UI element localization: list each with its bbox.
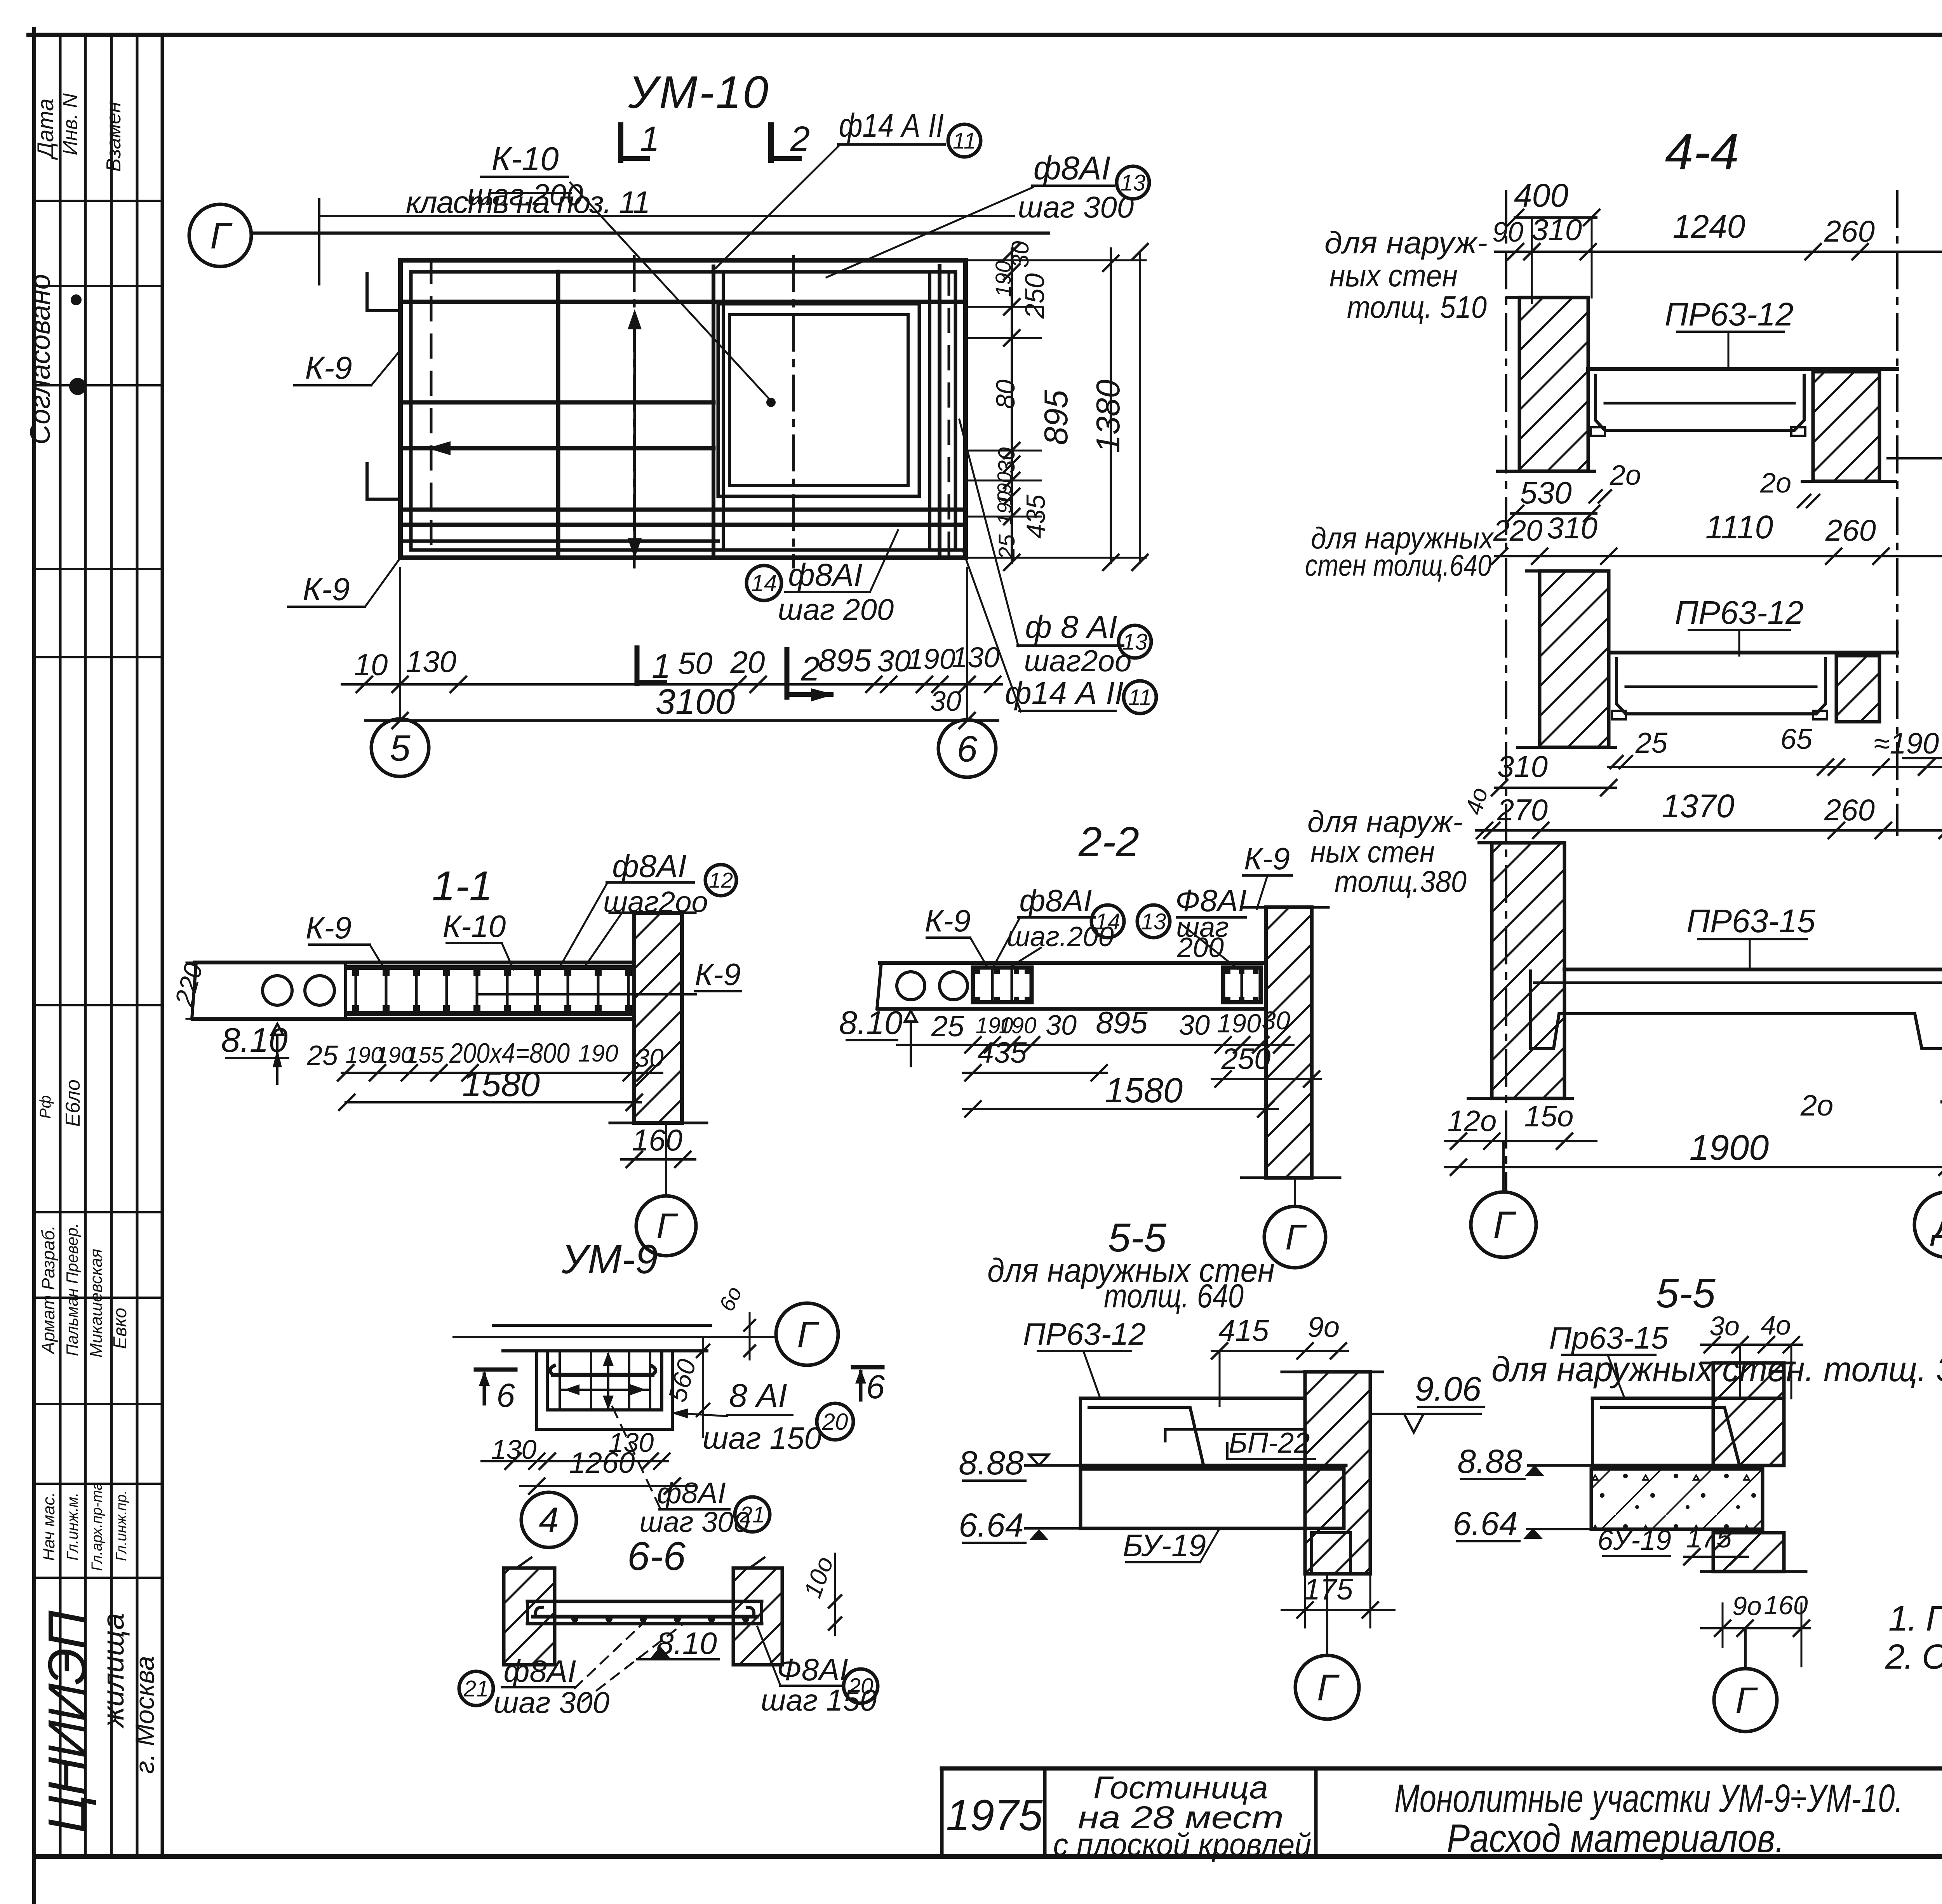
svg-text:4о: 4о bbox=[1761, 1310, 1791, 1340]
4-4 sub2 wall hatched bbox=[1540, 571, 1609, 747]
5-5/380 axis Г circle bbox=[1744, 1628, 1747, 1669]
6-6 slab bbox=[527, 1600, 762, 1603]
svg-text:Нач мас.: Нач мас. bbox=[39, 1492, 58, 1561]
2-2 hollow core circles bbox=[897, 972, 925, 1000]
svg-text:К-9: К-9 bbox=[306, 910, 352, 945]
svg-text:3100: 3100 bbox=[656, 682, 735, 722]
svg-text:895: 895 bbox=[818, 643, 872, 678]
4-4 sub2 panel bbox=[1609, 651, 1897, 654]
svg-text:190: 190 bbox=[999, 1013, 1037, 1038]
svg-text:ф8АI: ф8АI bbox=[1020, 883, 1092, 918]
4-4 right axis dash-dot upper bbox=[1896, 191, 1898, 835]
6-6 label ф8АI шаг 300 circle 21 bottom bbox=[459, 1671, 493, 1706]
svg-text:≈190: ≈190 bbox=[1874, 727, 1939, 760]
svg-text:160: 160 bbox=[632, 1123, 682, 1157]
5-5/640 roof slab top line bbox=[1081, 1397, 1305, 1400]
svg-text:20: 20 bbox=[848, 1674, 874, 1699]
svg-text:БУ-19: БУ-19 bbox=[1123, 1528, 1206, 1563]
svg-text:шаг 300: шаг 300 bbox=[639, 1506, 749, 1538]
svg-text:25: 25 bbox=[994, 534, 1020, 560]
svg-text:ф 8 АI: ф 8 АI bbox=[1025, 609, 1117, 645]
1-1 axis Г circle below wall bbox=[665, 1123, 667, 1196]
svg-text:шаг 300: шаг 300 bbox=[1018, 190, 1134, 224]
svg-text:190: 190 bbox=[994, 491, 1016, 525]
svg-text:2. Сечения 4-4 и 5-5 замаркиро: 2. Сечения 4-4 и 5-5 замаркированы на ли… bbox=[1885, 1638, 1942, 1676]
svg-text:30: 30 bbox=[877, 644, 911, 678]
svg-text:Г: Г bbox=[797, 1314, 820, 1355]
svg-text:175: 175 bbox=[1304, 1573, 1354, 1606]
svg-text:190: 190 bbox=[578, 1040, 618, 1067]
svg-text:Микашевская: Микашевская bbox=[87, 1249, 106, 1358]
svg-text:1580: 1580 bbox=[1105, 1071, 1183, 1110]
plan outer outline bbox=[400, 258, 966, 263]
1-1 wall hatched bbox=[634, 913, 682, 1123]
УМ-9 dim 560 rotated bbox=[702, 1337, 704, 1437]
svg-text:130: 130 bbox=[952, 641, 999, 674]
svg-text:270: 270 bbox=[1497, 793, 1548, 827]
svg-text:Е6ло: Е6ло bbox=[62, 1079, 84, 1127]
section cut line 1 vertical bbox=[633, 256, 636, 567]
svg-text:5: 5 bbox=[390, 727, 411, 769]
svg-text:2-2: 2-2 bbox=[1078, 818, 1139, 865]
5-5/380 wall hatched upper bbox=[1713, 1363, 1784, 1465]
4-4 axis Г circle bottom bbox=[1502, 1142, 1505, 1192]
svg-text:1580: 1580 bbox=[462, 1065, 540, 1104]
svg-text:для наруж-: для наруж- bbox=[1307, 804, 1463, 839]
svg-text:1370: 1370 bbox=[1662, 788, 1735, 824]
svg-text:2о: 2о bbox=[1800, 1089, 1834, 1122]
УМ-9 detail hooked bar bbox=[553, 1373, 652, 1377]
svg-text:с плоской кровлей: с плоской кровлей bbox=[1053, 1827, 1312, 1862]
svg-text:6-6: 6-6 bbox=[627, 1534, 686, 1579]
svg-text:К-9: К-9 bbox=[1244, 841, 1290, 876]
svg-text:21: 21 bbox=[463, 1676, 489, 1701]
4-4 sub2 right wall hatched bbox=[1836, 656, 1879, 722]
svg-text:250: 250 bbox=[1020, 273, 1050, 319]
axis circle 4 bbox=[521, 1492, 576, 1547]
svg-text:ПР63-12: ПР63-12 bbox=[1665, 296, 1794, 332]
svg-text:8 АI: 8 АI bbox=[729, 1377, 787, 1414]
2-2 rebar cage A bbox=[973, 968, 1032, 1002]
svg-text:310: 310 bbox=[1497, 749, 1548, 783]
svg-text:895: 895 bbox=[1038, 390, 1075, 445]
upper dim string line класть на поз.11 bbox=[319, 215, 1014, 217]
svg-text:Гл.инж.пр.: Гл.инж.пр. bbox=[113, 1490, 130, 1561]
svg-text:1. Примечания см.лист 23.: 1. Примечания см.лист 23. bbox=[1888, 1599, 1942, 1638]
axis Г circle left bbox=[189, 204, 251, 266]
5-5/640 wall lower part bbox=[1312, 1533, 1350, 1574]
svg-text:190: 190 bbox=[991, 261, 1015, 297]
svg-text:шаг 300: шаг 300 bbox=[494, 1685, 609, 1720]
2-2 circle 13 and label Ф8АI шаг 200 bbox=[1137, 905, 1170, 938]
svg-text:К-10: К-10 bbox=[443, 909, 506, 943]
stamp column horizontal separators bbox=[34, 200, 162, 202]
svg-text:90: 90 bbox=[1492, 217, 1523, 248]
svg-text:Г: Г bbox=[1735, 1680, 1758, 1721]
svg-text:Дата: Дата bbox=[33, 98, 58, 160]
svg-text:435: 435 bbox=[978, 1036, 1027, 1069]
svg-text:шаг 200: шаг 200 bbox=[778, 592, 894, 627]
svg-text:21: 21 bbox=[740, 1502, 765, 1527]
svg-text:310: 310 bbox=[1547, 511, 1597, 545]
svg-text:50: 50 bbox=[678, 646, 713, 680]
1-1 slab joint bbox=[344, 962, 347, 1019]
svg-text:шаг2оо: шаг2оо bbox=[603, 886, 708, 919]
svg-text:1380: 1380 bbox=[1090, 379, 1127, 453]
svg-text:8.10: 8.10 bbox=[839, 1004, 903, 1041]
6-6 elevation 8.10 bbox=[650, 1646, 670, 1659]
svg-text:220: 220 bbox=[1493, 514, 1543, 547]
svg-text:6: 6 bbox=[496, 1377, 515, 1414]
svg-text:175: 175 bbox=[1686, 1523, 1732, 1553]
svg-text:8.10: 8.10 bbox=[656, 1626, 717, 1660]
svg-text:стен толщ.640: стен толщ.640 bbox=[1305, 548, 1491, 582]
1-1 dim 1580 bbox=[346, 1101, 641, 1103]
2-2 slab outline bbox=[877, 963, 881, 1009]
svg-text:260: 260 bbox=[1825, 513, 1876, 547]
svg-text:20: 20 bbox=[822, 1409, 848, 1435]
svg-text:1110: 1110 bbox=[1705, 509, 1773, 545]
svg-text:Взамен: Взамен bbox=[103, 102, 125, 172]
section mark 1 bottom bbox=[635, 648, 640, 684]
5-5/380 concrete monolith band bbox=[1591, 1469, 1763, 1529]
svg-text:155: 155 bbox=[406, 1043, 444, 1068]
svg-text:9.06: 9.06 bbox=[1415, 1370, 1481, 1408]
svg-text:Пр63-15: Пр63-15 bbox=[1549, 1321, 1669, 1355]
svg-text:Пальман Превер.: Пальман Превер. bbox=[63, 1223, 81, 1356]
УМ-9 detail cage grid bbox=[559, 1351, 561, 1410]
svg-text:ф14 А II: ф14 А II bbox=[1005, 675, 1124, 711]
svg-text:11: 11 bbox=[1128, 685, 1152, 710]
svg-text:ф8АI: ф8АI bbox=[504, 1654, 576, 1688]
svg-text:УМ-10: УМ-10 bbox=[628, 67, 770, 118]
5-5/380 parapet panel sloped bbox=[1600, 1407, 1739, 1464]
4-4 left axis dash-dot bbox=[1505, 191, 1507, 1190]
УМ-9 detail axis to Г circle bbox=[454, 1336, 776, 1338]
1-1 rebar cage bbox=[348, 965, 631, 970]
5-5/380 slab line bbox=[1592, 1464, 1784, 1467]
svg-text:200: 200 bbox=[1177, 932, 1224, 963]
section cut line 2-2 top mark bbox=[768, 125, 774, 160]
1-1 dim 160 bbox=[621, 1158, 695, 1161]
svg-text:9о: 9о bbox=[1308, 1311, 1340, 1343]
stamp column verticals bbox=[59, 35, 62, 1857]
4-4 sub1 panel bbox=[1588, 367, 1897, 371]
2-2 axis Г circle below bbox=[1294, 1178, 1296, 1206]
svg-text:Гл.инж.м.: Гл.инж.м. bbox=[64, 1492, 81, 1560]
svg-text:12: 12 bbox=[709, 868, 733, 893]
svg-text:250: 250 bbox=[1221, 1043, 1271, 1076]
УМ-9 detail pocket outline bbox=[535, 1351, 538, 1429]
svg-text:25: 25 bbox=[1635, 727, 1668, 759]
plan right verticals near edge bbox=[928, 272, 931, 550]
svg-text:толщ. 640: толщ. 640 bbox=[1104, 1277, 1244, 1315]
svg-text:Инв. N: Инв. N bbox=[59, 93, 82, 155]
svg-text:14: 14 bbox=[1095, 909, 1121, 934]
stamp ink blobs bbox=[71, 294, 82, 305]
plan window opening bbox=[718, 304, 919, 496]
svg-text:К-10: К-10 bbox=[492, 141, 559, 178]
plan vertical double arrow bbox=[633, 314, 636, 554]
1-1 label К-9 right bbox=[478, 993, 696, 996]
svg-text:15о: 15о bbox=[1524, 1100, 1574, 1133]
svg-text:11: 11 bbox=[953, 128, 976, 153]
4-4 sub3 panel ПР63-15 bbox=[1564, 968, 1942, 971]
plan right side dims bbox=[966, 259, 1146, 261]
1-1 hollow core circles bbox=[263, 976, 292, 1005]
svg-text:9о: 9о bbox=[1732, 1591, 1762, 1621]
svg-text:ф8АI: ф8АI bbox=[657, 1477, 726, 1510]
svg-text:шаг 150: шаг 150 bbox=[703, 1421, 821, 1455]
svg-text:415: 415 bbox=[1218, 1313, 1269, 1347]
svg-text:6: 6 bbox=[957, 728, 978, 769]
svg-text:ф8АI: ф8АI bbox=[788, 557, 863, 593]
5-5/640 wall hatched bbox=[1305, 1372, 1370, 1574]
plan mid vertical rebar К-10 bbox=[556, 272, 560, 558]
svg-text:ф14 А II: ф14 А II bbox=[839, 107, 944, 144]
svg-text:УМ-9: УМ-9 bbox=[561, 1237, 658, 1282]
2-2 wall hatched bbox=[1266, 907, 1312, 1178]
4-4 sub1 right wall hatched bbox=[1813, 372, 1879, 481]
svg-text:80: 80 bbox=[991, 379, 1020, 409]
5-5/640 axis Г circle bbox=[1326, 1574, 1328, 1655]
plan interior rebar horizontals bbox=[400, 300, 966, 304]
svg-text:6.64: 6.64 bbox=[1453, 1505, 1517, 1542]
svg-text:Г: Г bbox=[656, 1206, 678, 1246]
svg-text:1: 1 bbox=[652, 647, 671, 685]
svg-text:шаг2оо: шаг2оо bbox=[1024, 644, 1132, 678]
svg-text:Рф: Рф bbox=[37, 1095, 54, 1119]
svg-text:5-5: 5-5 bbox=[1656, 1270, 1716, 1316]
svg-text:ЦНИИЭП: ЦНИИЭП bbox=[37, 1610, 97, 1833]
svg-text:жилища: жилища bbox=[96, 1613, 130, 1728]
svg-text:25: 25 bbox=[931, 1010, 964, 1043]
svg-text:14: 14 bbox=[751, 570, 777, 596]
svg-text:1900: 1900 bbox=[1690, 1128, 1769, 1168]
svg-text:30: 30 bbox=[994, 447, 1020, 473]
5-5/380 roof top line bbox=[1592, 1397, 1784, 1400]
plan left К-9 bracket upper bbox=[367, 272, 400, 311]
svg-text:895: 895 bbox=[1096, 1005, 1148, 1040]
sheet outer border bbox=[29, 33, 1942, 37]
svg-text:К-9: К-9 bbox=[303, 572, 350, 607]
svg-text:6: 6 bbox=[866, 1368, 885, 1406]
svg-text:20: 20 bbox=[730, 645, 765, 679]
svg-text:200х4=800: 200х4=800 bbox=[449, 1038, 570, 1069]
svg-text:ных стен: ных стен bbox=[1329, 258, 1458, 293]
svg-text:Г: Г bbox=[1317, 1667, 1340, 1709]
plan hidden dashed line left bbox=[430, 260, 433, 558]
svg-text:30: 30 bbox=[1179, 1010, 1210, 1041]
svg-text:1260: 1260 bbox=[569, 1446, 635, 1479]
svg-text:435: 435 bbox=[1021, 494, 1051, 539]
4-4 sub3 wall hatched bbox=[1492, 843, 1564, 1098]
svg-text:г. Москва: г. Москва bbox=[130, 1656, 160, 1774]
svg-text:Согласовано: Согласовано bbox=[25, 274, 56, 444]
УМ-9 detail vertical arrow bbox=[607, 1354, 609, 1408]
svg-text:Г: Г bbox=[1493, 1203, 1516, 1246]
svg-text:400: 400 bbox=[1514, 177, 1568, 214]
plan dim 3100 bbox=[365, 719, 998, 722]
svg-text:Евко: Евко bbox=[110, 1308, 131, 1349]
5-5/640 БУ-19 beam bbox=[1081, 1469, 1344, 1528]
title block frame bbox=[942, 1767, 1942, 1771]
svg-text:13: 13 bbox=[1122, 629, 1148, 654]
svg-text:530: 530 bbox=[1520, 475, 1571, 510]
svg-text:130: 130 bbox=[406, 644, 456, 679]
svg-text:толщ. 510: толщ. 510 bbox=[1347, 290, 1487, 324]
2-2 dim 1580 bbox=[963, 1108, 1278, 1110]
svg-text:толщ.380: толщ.380 bbox=[1335, 864, 1467, 898]
svg-text:30: 30 bbox=[1262, 1006, 1290, 1035]
svg-text:4: 4 bbox=[539, 1500, 559, 1540]
svg-text:2о: 2о bbox=[1760, 468, 1791, 499]
svg-text:260: 260 bbox=[1824, 793, 1875, 827]
svg-text:310: 310 bbox=[1531, 212, 1582, 247]
svg-text:2: 2 bbox=[790, 120, 810, 158]
plan left К-9 bracket lower bbox=[367, 462, 400, 499]
svg-text:3о: 3о bbox=[1709, 1311, 1740, 1341]
5-5/640 БП-22 pocket bbox=[1165, 1428, 1305, 1431]
svg-text:Ф8АI: Ф8АI bbox=[777, 1652, 848, 1687]
svg-text:190: 190 bbox=[1217, 1009, 1261, 1038]
svg-text:ф8АI: ф8АI bbox=[612, 849, 687, 884]
svg-text:6У-19: 6У-19 bbox=[1597, 1525, 1671, 1556]
plan window zone divider double vertical bbox=[712, 266, 715, 558]
6-6 left wall hatched bbox=[504, 1568, 555, 1665]
4-4 sub1 wall hatched bbox=[1519, 298, 1588, 471]
svg-text:для наруж-: для наруж- bbox=[1324, 225, 1488, 260]
axis 6 circle bbox=[938, 720, 996, 777]
section cut line 1-1 top mark bbox=[618, 125, 623, 160]
svg-text:13: 13 bbox=[1121, 170, 1146, 195]
svg-text:30: 30 bbox=[1046, 1010, 1077, 1041]
4-4 sub1 elevation 8.88 bbox=[1888, 457, 1942, 459]
svg-text:65: 65 bbox=[1780, 723, 1813, 755]
axis 5 circle bbox=[371, 719, 429, 776]
svg-text:25: 25 bbox=[306, 1040, 338, 1071]
svg-text:Монолитные участки УМ-9÷УМ-10.: Монолитные участки УМ-9÷УМ-10. bbox=[1394, 1776, 1903, 1820]
УМ-9 detail top wall lines bbox=[493, 1324, 711, 1327]
svg-text:13: 13 bbox=[1141, 909, 1166, 934]
5-5/640 parapet panel sloped bbox=[1088, 1407, 1203, 1464]
svg-text:1240: 1240 bbox=[1673, 208, 1745, 245]
svg-text:К-9: К-9 bbox=[695, 957, 741, 992]
svg-text:Гл.арх.пр-та: Гл.арх.пр-та bbox=[89, 1482, 105, 1571]
svg-text:Расход материалов.: Расход материалов. bbox=[1447, 1816, 1785, 1860]
svg-text:4-4: 4-4 bbox=[1665, 123, 1739, 180]
svg-text:Г: Г bbox=[210, 215, 233, 256]
svg-text:К-9: К-9 bbox=[925, 903, 971, 938]
svg-text:1: 1 bbox=[640, 120, 660, 158]
svg-text:Г: Г bbox=[1285, 1218, 1307, 1257]
svg-text:2о: 2о bbox=[1610, 460, 1641, 491]
svg-text:Армат Разраб.: Армат Разраб. bbox=[38, 1225, 58, 1355]
6-6 wall break marks bbox=[517, 1558, 531, 1568]
axis Г line bbox=[251, 231, 1049, 235]
plan horizontal arrow on rebar bbox=[427, 441, 451, 455]
svg-text:6.64: 6.64 bbox=[959, 1507, 1023, 1544]
5-5/640 slab bottom line bbox=[1081, 1464, 1346, 1467]
svg-text:К-9: К-9 bbox=[305, 350, 352, 386]
svg-text:190: 190 bbox=[907, 643, 955, 675]
svg-text:8.88: 8.88 bbox=[959, 1445, 1024, 1482]
УМ-9 detail horizontal arrows bbox=[564, 1384, 579, 1395]
svg-text:ных стен: ных стен bbox=[1310, 835, 1435, 869]
svg-text:2: 2 bbox=[800, 649, 820, 688]
1-1 slab outline bbox=[192, 962, 196, 1019]
section cut line 2 vertical bbox=[792, 256, 795, 567]
svg-text:шаг.200: шаг.200 bbox=[467, 178, 583, 212]
svg-text:ПР63-12: ПР63-12 bbox=[1675, 594, 1804, 631]
2-2 rebar cage B bbox=[1223, 968, 1261, 1002]
svg-text:8.88: 8.88 bbox=[1457, 1443, 1523, 1480]
УМ-9 section mark 6 left bbox=[476, 1368, 515, 1372]
4-4 sub2 elevation 8.88 bbox=[1903, 757, 1942, 759]
svg-text:ф8АI: ф8АI bbox=[1034, 150, 1111, 187]
svg-text:12о: 12о bbox=[1448, 1105, 1497, 1138]
5-5/380 wall hatched lower bbox=[1713, 1533, 1784, 1572]
6-6 rebar with dots bbox=[533, 1615, 757, 1619]
УМ-9 section mark 6 right bbox=[853, 1365, 882, 1370]
section mark 2 bottom bbox=[785, 649, 790, 697]
svg-text:БП-22: БП-22 bbox=[1229, 1427, 1310, 1459]
svg-text:1-1: 1-1 bbox=[432, 862, 492, 909]
plan bottom dim line long bbox=[501, 683, 1002, 686]
svg-text:1975: 1975 bbox=[946, 1791, 1043, 1840]
svg-text:ПР63-12: ПР63-12 bbox=[1023, 1317, 1146, 1351]
label ф8АI шаг200 with circle 14 under plan bbox=[747, 566, 781, 600]
svg-text:ПР63-15: ПР63-15 bbox=[1686, 903, 1815, 939]
6-6 right wall hatched bbox=[733, 1568, 782, 1665]
